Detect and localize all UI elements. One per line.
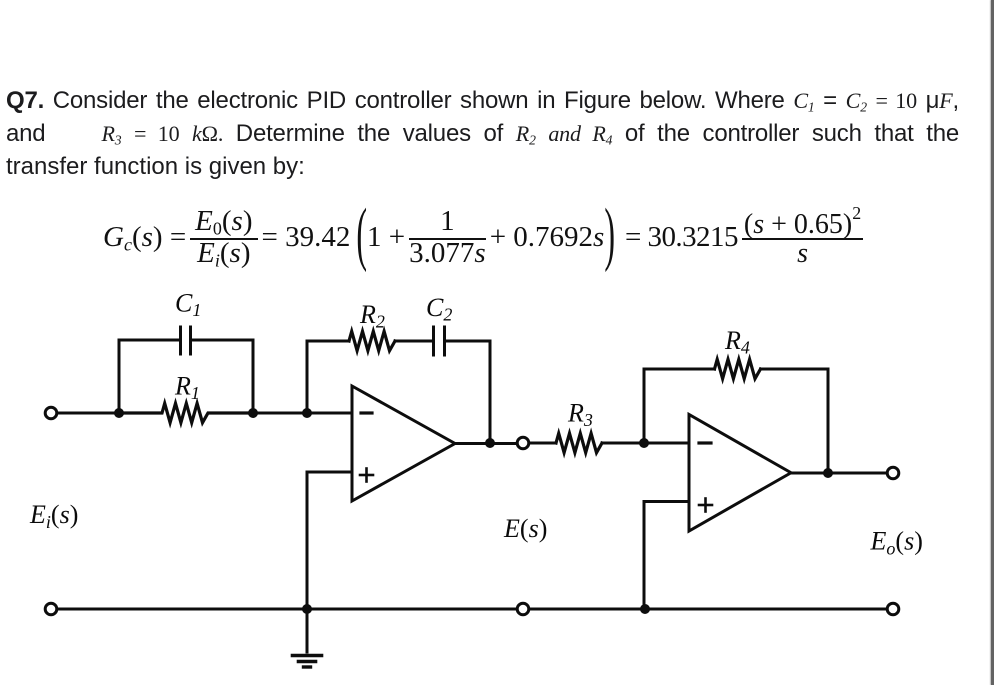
label C2 [426, 293, 452, 325]
terminal Eo bottom [887, 603, 899, 615]
wire feedback 1 down to output node [446, 341, 490, 443]
wire U2 plus input [644, 502, 689, 610]
ground [293, 609, 322, 667]
label R4 [724, 326, 750, 358]
node D (junction dot at U1 output/feedback) [485, 438, 495, 448]
terminal E(s) top [517, 437, 529, 449]
op-amp U1 [352, 386, 455, 501]
node B (junction dot) [248, 408, 258, 418]
resistor R3 [556, 433, 602, 452]
op-amp U2 plus sign [699, 499, 712, 512]
wire C1 branch up-left [119, 340, 179, 413]
node A (junction dot) [114, 408, 124, 418]
label R2 [359, 300, 385, 332]
label C1 [175, 289, 201, 321]
resistor R1 [119, 403, 253, 422]
question text [6, 84, 959, 183]
terminal Eo top (output) [887, 467, 899, 479]
node F (junction dot at U2 output/feedback) [823, 468, 833, 478]
svg-text:R4: R4 [724, 326, 750, 358]
wire R2 to C2 [395, 340, 432, 343]
label Ei(s) [29, 500, 78, 532]
right page edge line [991, 0, 994, 685]
wire bottom rail left [58, 608, 517, 611]
terminal Ei bottom [45, 603, 57, 615]
svg-text:C1: C1 [175, 289, 201, 321]
svg-text:R1: R1 [174, 372, 200, 404]
wire feedback 2 up [644, 369, 715, 443]
wire bottom rail right [530, 608, 887, 611]
wire node E to op-amp U2 inverting input [644, 442, 689, 445]
svg-text:E(s): E(s) [503, 514, 547, 543]
terminal E(s) bottom [517, 603, 529, 615]
op-amp U1 minus sign [361, 411, 372, 414]
label R1 [174, 372, 200, 404]
node C (junction dot, feedback takeoff) [302, 408, 312, 418]
node H (junction dot bottom of U2 plus wire) [640, 604, 650, 614]
label R3 [567, 399, 593, 431]
capacitor C1 [181, 327, 191, 354]
wire input to node A [58, 412, 120, 415]
wire C1 branch right-down [192, 340, 253, 413]
label Eo(s) [870, 527, 923, 559]
terminal Ei top (input) [45, 407, 57, 419]
svg-text:C2: C2 [426, 293, 452, 325]
capacitor C2 [434, 327, 445, 355]
wire E(s) to R3 [530, 442, 557, 445]
op-amp U2 [689, 415, 791, 532]
resistor R2 [349, 331, 395, 350]
wire U1 output [455, 442, 517, 445]
svg-text:Ei(s): Ei(s) [29, 500, 78, 532]
svg-text:R2: R2 [359, 300, 385, 332]
wire feedback 1 up [307, 341, 349, 413]
label E(s) [503, 514, 547, 543]
wire node B to node C [253, 412, 307, 415]
op-amp U1 plus sign [360, 469, 373, 482]
resistor R4 [715, 359, 761, 378]
wire U2 output [791, 472, 887, 475]
svg-text:R3: R3 [567, 399, 593, 431]
op-amp U2 minus sign [699, 441, 711, 444]
node G (ground junction dot) [302, 604, 312, 614]
wire feedback 2 down to output node [761, 369, 829, 473]
equation [103, 196, 867, 278]
wire U1 plus input [307, 472, 352, 609]
node E (junction dot, feedback takeoff 2) [639, 438, 649, 448]
wire node C to op-amp U1 inverting input [307, 412, 352, 415]
wire R3 to node E [602, 442, 644, 445]
svg-text:Eo(s): Eo(s) [870, 527, 923, 559]
